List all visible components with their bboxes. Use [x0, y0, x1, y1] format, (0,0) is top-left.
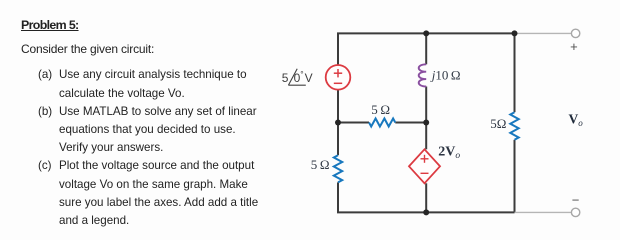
line "Consider the given circuit:" — [21, 43, 154, 55]
wire: middle branch, middle node to diamond top — [425, 123, 427, 150]
svg-text:°: ° — [300, 69, 303, 79]
wire: right branch, resistor bottom to bottom-right corner — [514, 140, 516, 213]
node: junction dot top right — [512, 30, 518, 36]
node: junction dot bottom middle — [423, 209, 429, 215]
item (c) — [38, 160, 52, 172]
angle symbol of phasor — [288, 69, 305, 85]
svg-text:−: − — [572, 192, 580, 207]
wire: horizontal middle, left node to resistor R2 left — [338, 122, 369, 124]
node: junction dot top middle — [423, 30, 429, 36]
wire: middle branch, diamond bottom to bottom node — [425, 183, 427, 212]
wire: bottom, middle node to bottom-right corner — [426, 211, 514, 213]
voltage source Vs 5∠0°V (ac source circle) — [326, 65, 351, 90]
svg-text:+: + — [570, 39, 578, 54]
svg-text:5: 5 — [282, 71, 289, 85]
svg-text:Vo: Vo — [569, 112, 584, 129]
terminal: top output (open circle) — [571, 29, 579, 37]
wire: left branch, source bottom to middle node — [337, 90, 339, 123]
wire: left branch, resistor bottom to bottom-left corner — [338, 182, 426, 212]
resistor R1 5Ω (left vertical) — [334, 155, 342, 182]
title "Problem 5:" — [21, 19, 79, 31]
wire: middle branch, top node to inductor top — [425, 33, 427, 64]
svg-text:5 Ω: 5 Ω — [311, 157, 330, 172]
svg-text:5Ω: 5Ω — [490, 116, 506, 131]
resistor R2 5Ω (horizontal middle) — [369, 119, 395, 127]
wire: gray lead to bottom output terminal — [515, 211, 572, 213]
svg-text:V: V — [305, 71, 313, 85]
item (a) — [38, 69, 52, 81]
svg-text:2Vo: 2Vo — [438, 144, 460, 161]
node: junction dot left middle — [335, 120, 341, 126]
wire: left branch, middle node to resistor top — [337, 123, 339, 156]
wire: middle branch, inductor bottom to middle node — [425, 87, 427, 123]
node: junction dot center — [423, 120, 429, 126]
resistor R3 5Ω (right vertical) — [510, 112, 518, 140]
wire: top, middle node to top-right corner — [426, 32, 514, 34]
wire: right branch, top-right corner to resistor top — [514, 33, 516, 112]
svg-text:5 Ω: 5 Ω — [371, 102, 390, 117]
terminal: bottom output (open circle) — [571, 208, 579, 216]
wire: gray lead to top output terminal — [515, 32, 572, 34]
inductor L1 j10Ω (coil) — [419, 64, 427, 86]
item (b) — [38, 106, 52, 118]
wire: horizontal middle, resistor R2 right to middle node — [395, 122, 426, 124]
svg-text:j10 Ω: j10 Ω — [430, 67, 461, 82]
value label 5∠0° V — [282, 69, 313, 85]
dependent source 2Vo (diamond) — [409, 149, 440, 183]
wire: top, left section (top-left corner to middle node) — [338, 33, 426, 65]
